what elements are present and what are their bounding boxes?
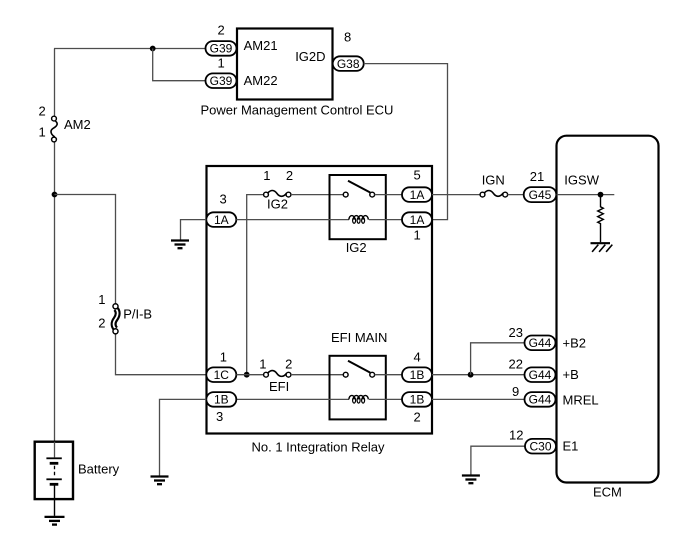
wire IGN row from 1A pin 5 [432, 194, 480, 196]
svg-text:G44: G44 [529, 368, 552, 382]
svg-text:AM2: AM2 [64, 117, 91, 132]
svg-text:1A: 1A [214, 213, 229, 227]
No. 1 Integration Relay box [207, 166, 433, 434]
svg-text:1B: 1B [410, 393, 425, 407]
wire P/I-B to 1C [116, 334, 207, 375]
svg-text:2: 2 [98, 315, 105, 330]
wire G38 to relay pin 1 [364, 64, 448, 220]
svg-text:AM22: AM22 [244, 73, 278, 88]
svg-text:E1: E1 [563, 439, 579, 454]
svg-text:G39: G39 [210, 74, 233, 88]
wire left 1A to ground [181, 220, 207, 240]
connector 1B (pin 4, right upper) [402, 367, 432, 382]
svg-text:21: 21 [530, 169, 544, 184]
relay EFI MAIN box [330, 356, 386, 420]
ground below battery [45, 517, 65, 525]
wire battery positive vertical (upper) [54, 49, 56, 117]
svg-text:1A: 1A [410, 188, 425, 202]
wire coil to 1A pin 1 [369, 219, 402, 221]
wire branch to G39 AM22 [153, 49, 206, 81]
svg-text:1B: 1B [410, 368, 425, 382]
connector G45 (IGSW) [524, 187, 557, 202]
relay IG2 coil [349, 216, 368, 224]
ground at left 1A [171, 241, 189, 249]
Power Management Control ECU box [237, 29, 333, 100]
svg-text:1: 1 [263, 168, 270, 183]
wire branch junction to P/I-B [55, 195, 116, 304]
wire battery to ground [54, 499, 56, 516]
svg-text:IGSW: IGSW [564, 173, 599, 188]
svg-text:Battery: Battery [78, 461, 120, 476]
relay EFI MAIN coil [349, 395, 368, 403]
svg-text:3: 3 [220, 191, 227, 206]
svg-text:EFI MAIN: EFI MAIN [331, 330, 387, 345]
wire 1B pin2 to MREL [432, 398, 525, 400]
svg-text:5: 5 [414, 168, 421, 183]
svg-text:22: 22 [509, 356, 523, 371]
connector C30 (E1) [525, 439, 556, 454]
fuse IGN [480, 190, 508, 197]
connector G38 [333, 56, 364, 71]
ground at E1 [462, 476, 480, 484]
svg-text:G45: G45 [529, 188, 552, 202]
wire IGN fuse to G45 [508, 194, 524, 196]
svg-text:C30: C30 [529, 439, 551, 453]
connector 1B (pin 3, left) [206, 392, 236, 407]
connector 1A (pin 5, right upper) [402, 187, 432, 202]
node junction IGSW [598, 192, 604, 198]
fuse EFI [264, 371, 291, 378]
svg-text:G44: G44 [529, 393, 552, 407]
wire 1B pin4 to +B [432, 374, 525, 376]
svg-text:2: 2 [286, 168, 293, 183]
svg-text:2: 2 [39, 103, 46, 118]
wire IGSW inside ECM [557, 194, 615, 196]
svg-text:No. 1 Integration Relay: No. 1 Integration Relay [252, 440, 385, 455]
chassis ground in ECM [591, 243, 613, 252]
connector G44 (+B2) [525, 336, 556, 351]
node junction on top wire [150, 46, 156, 52]
svg-text:Power Management Control ECU: Power Management Control ECU [201, 102, 394, 117]
connector 1A (pin 3, left) [206, 212, 236, 227]
relay IG2 box [330, 175, 386, 239]
node junction after 1C [244, 372, 250, 378]
svg-text:AM21: AM21 [244, 38, 278, 53]
svg-text:9: 9 [512, 384, 519, 399]
svg-text:1: 1 [220, 350, 227, 365]
svg-text:3: 3 [216, 409, 223, 424]
svg-text:8: 8 [344, 30, 351, 45]
svg-text:2: 2 [218, 23, 225, 38]
fuse IG2 [264, 190, 291, 197]
connector G44 (MREL) [525, 392, 556, 407]
svg-text:IG2: IG2 [267, 197, 288, 212]
connector 1C (pin 1, left) [206, 367, 236, 382]
battery [35, 442, 73, 499]
wire EFI fuse to relay [291, 374, 344, 376]
wire battery vertical below AM2 [54, 142, 56, 442]
svg-text:ECM: ECM [593, 485, 622, 500]
connector G44 (+B) [525, 367, 556, 382]
ECM box [557, 136, 659, 483]
svg-text:1: 1 [218, 55, 225, 70]
svg-text:1C: 1C [214, 368, 230, 382]
node junction +B branch [468, 372, 474, 378]
svg-text:23: 23 [509, 325, 523, 340]
svg-text:G38: G38 [337, 57, 360, 71]
wire fuse IG2 to relay switch [291, 194, 344, 196]
resistor in ECM [598, 195, 604, 243]
wire top horizontal to G39 AM21 [54, 48, 206, 50]
svg-text:MREL: MREL [563, 393, 599, 408]
svg-text:+B2: +B2 [563, 336, 587, 351]
wire left 1B to ground [160, 399, 207, 475]
svg-text:2: 2 [285, 356, 292, 371]
wire coil row from left 1A [236, 219, 349, 221]
svg-text:IG2D: IG2D [295, 49, 325, 64]
svg-text:P/I-B: P/I-B [123, 306, 152, 321]
fuse AM2 [51, 116, 57, 142]
connector G39 (AM22) [206, 73, 237, 88]
svg-text:1: 1 [98, 292, 105, 307]
svg-text:12: 12 [509, 428, 523, 443]
wire switch to 1A pin 5 [375, 194, 403, 196]
svg-text:EFI: EFI [269, 379, 289, 394]
relay IG2 switch [343, 181, 374, 197]
wire branch to +B2 [471, 343, 525, 375]
svg-text:1: 1 [39, 125, 46, 140]
wire E1 to ground [471, 446, 525, 474]
node junction battery branch [52, 192, 58, 198]
svg-text:G44: G44 [529, 336, 552, 350]
wire switch to 1B pin 4 [375, 374, 403, 376]
wire 1C to EFI fuse [236, 374, 263, 376]
connector 1B (pin 2, right lower) [402, 392, 432, 407]
svg-text:+B: +B [563, 367, 579, 382]
connector 1A (pin 1, right lower) [402, 212, 432, 227]
svg-text:IGN: IGN [482, 173, 505, 188]
wire IG2 fuse feed from 1C junction [247, 195, 264, 375]
svg-text:1: 1 [259, 356, 266, 371]
svg-text:G39: G39 [210, 42, 233, 56]
ground at left 1B [151, 477, 169, 485]
fusible link P/I-B [113, 304, 118, 334]
svg-text:4: 4 [414, 350, 421, 365]
relay EFI MAIN switch [343, 361, 374, 377]
svg-text:1: 1 [414, 227, 421, 242]
wire coil row from left 1B [236, 398, 349, 400]
svg-text:2: 2 [414, 409, 421, 424]
svg-text:IG2: IG2 [346, 240, 367, 255]
svg-text:1B: 1B [214, 393, 229, 407]
wire coil to 1B pin 2 [369, 398, 402, 400]
svg-text:1A: 1A [410, 213, 425, 227]
connector G39 (AM21) [206, 41, 237, 56]
